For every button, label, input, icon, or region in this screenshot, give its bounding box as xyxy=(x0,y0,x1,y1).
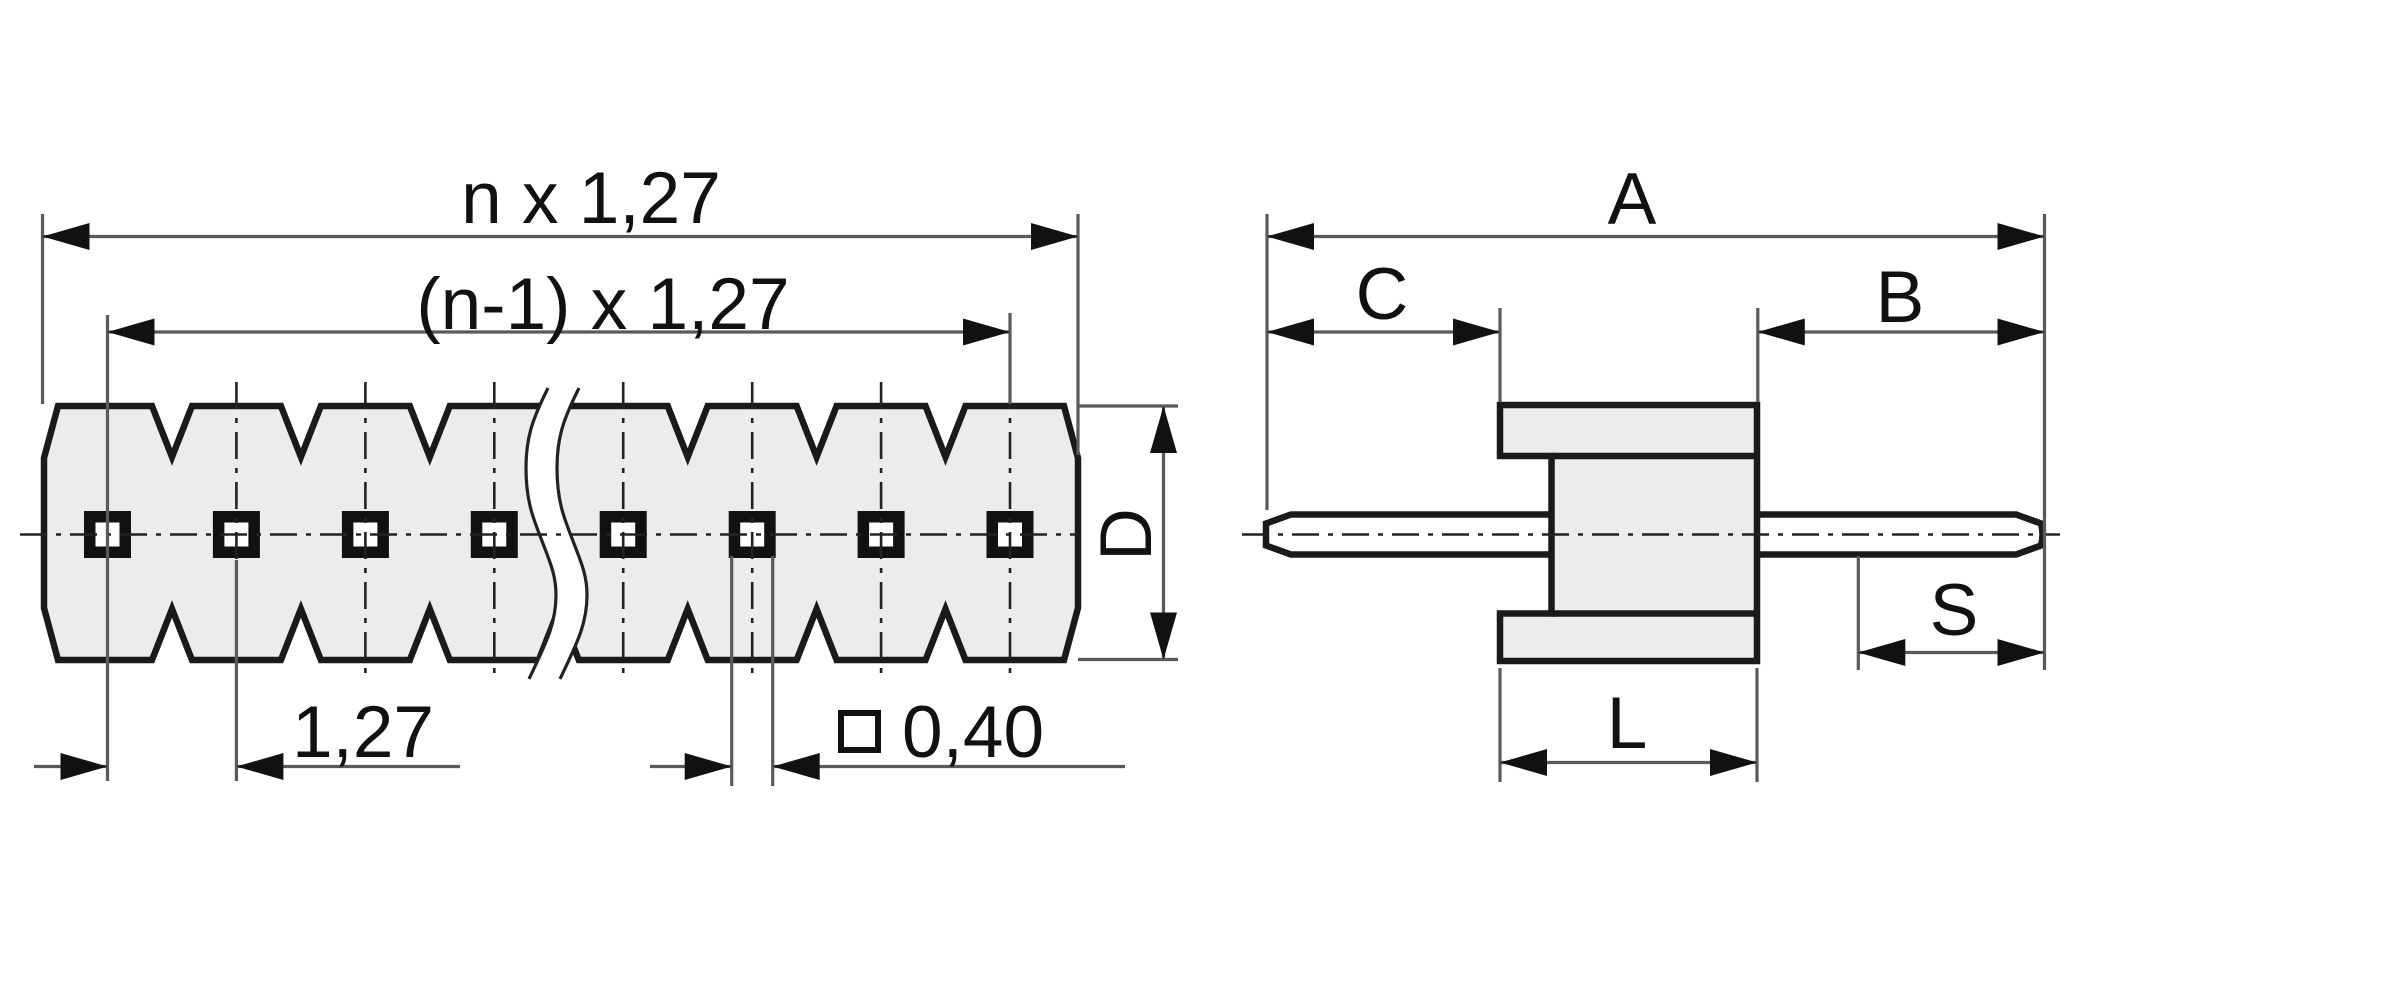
extension line: pin 8 center xyxy=(1008,313,1011,404)
joint line top flange / middle xyxy=(1552,453,1758,460)
vertical centerline pin 6 xyxy=(751,382,754,678)
dimension A (overall length) xyxy=(1267,235,2045,238)
vertical centerline pin 8 xyxy=(1009,382,1012,678)
pin 7 square xyxy=(858,511,905,558)
svg-text:C: C xyxy=(1356,254,1409,335)
dimension C xyxy=(1267,330,1500,333)
vertical centerline pin 5 xyxy=(622,382,625,678)
svg-text:1,27: 1,27 xyxy=(292,692,434,773)
connector body (top view, pin header strip) xyxy=(44,406,1078,660)
pin right segment (side view) xyxy=(1750,515,2041,555)
svg-text:0,40: 0,40 xyxy=(902,692,1044,773)
vertical centerline pin 4 xyxy=(493,382,496,678)
extension line: pin left tip xyxy=(1265,214,1268,510)
dimension n x 1,27 xyxy=(43,235,1079,238)
horizontal centerline (left view) xyxy=(20,533,1078,536)
svg-text:S: S xyxy=(1930,570,1979,651)
pin 1 square xyxy=(84,511,131,558)
side-view body xyxy=(1500,405,1757,661)
pin left segment (side view) xyxy=(1266,515,1560,555)
pin 6 square xyxy=(729,511,776,558)
svg-text:D: D xyxy=(1086,508,1167,561)
break wavy line left xyxy=(526,388,556,679)
extension line: body right (B) xyxy=(1756,308,1759,402)
dimension (n-1) x 1,27 xyxy=(108,330,1011,333)
joint line bottom flange / middle xyxy=(1552,610,1758,617)
pin 2 square xyxy=(213,511,260,558)
extension line: flange left (C) xyxy=(1498,308,1501,402)
svg-text:(n-1) x 1,27: (n-1) x 1,27 xyxy=(416,264,789,345)
dimension square 0,40 (pin size) xyxy=(650,765,732,768)
extension line: pin right tip xyxy=(2043,214,2046,670)
vertical centerline pin 2 xyxy=(235,382,238,678)
vertical centerline pin 3 xyxy=(364,382,367,678)
extension line: pin 1 center xyxy=(106,315,109,781)
extension line: L right xyxy=(1755,668,1758,782)
centerline (side view) xyxy=(1242,533,2060,536)
svg-text:A: A xyxy=(1608,159,1657,240)
extension line: S left xyxy=(1857,556,1860,670)
extension line: body left end xyxy=(41,214,44,404)
dimension S xyxy=(1858,651,2044,654)
extension line: pin 6 right face xyxy=(771,556,774,786)
pin 8 square xyxy=(987,511,1034,558)
svg-text:B: B xyxy=(1876,257,1925,338)
extension line: pin 2 center (below) xyxy=(235,560,238,781)
extension line: body right end xyxy=(1076,214,1079,455)
extension line: L left xyxy=(1498,668,1501,782)
svg-text:n x 1,27: n x 1,27 xyxy=(461,158,721,239)
dimension B xyxy=(1758,330,2045,333)
pin 4 square xyxy=(471,511,518,558)
dimension D (body width) xyxy=(1078,404,1178,407)
break gap (white band) xyxy=(526,388,587,679)
break wavy line right xyxy=(557,388,587,679)
extension line: pin 6 left face xyxy=(730,556,733,786)
pin 5 square xyxy=(600,511,647,558)
vertical centerline pin 7 xyxy=(880,382,883,678)
svg-text:L: L xyxy=(1607,683,1648,764)
dimension 1,27 (pitch) xyxy=(34,765,108,768)
pin 3 square xyxy=(342,511,389,558)
dimension L xyxy=(1500,761,1757,764)
